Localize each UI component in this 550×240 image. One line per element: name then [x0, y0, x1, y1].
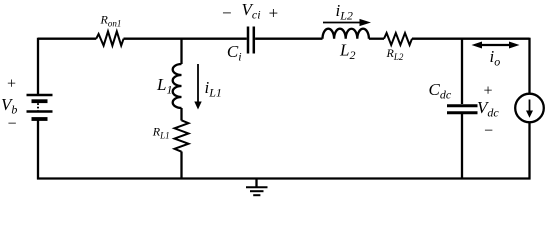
capacitor C_i: [248, 27, 254, 54]
svg-text:Vdc: Vdc: [477, 98, 499, 120]
wire right vertical top: [528, 38, 530, 94]
svg-text:L2: L2: [339, 41, 355, 63]
svg-text:iL1: iL1: [205, 78, 222, 100]
wire C_dc to bottom rail: [461, 114, 463, 180]
svg-text:RL2: RL2: [386, 46, 404, 62]
wire left vertical (battery top): [37, 38, 39, 94]
inductor L_2: [323, 29, 369, 39]
wire L1 to R_L1: [180, 108, 182, 121]
wire left vertical (battery bottom): [37, 119, 39, 180]
resistor R_L1: [175, 120, 189, 151]
wire top rail: R_L2 to right corner: [412, 38, 530, 40]
wire C_dc branch top: [461, 38, 463, 104]
svg-text:RL1: RL1: [152, 125, 170, 141]
svg-text:−: −: [7, 116, 18, 133]
wire right vertical bottom: [528, 122, 530, 180]
wire L1 branch top: [180, 38, 182, 64]
wire top rail left segment: [38, 38, 96, 40]
current source: [515, 94, 544, 123]
resistor R_L2: [384, 33, 412, 45]
svg-text:iL2: iL2: [336, 1, 353, 23]
svg-text:Ron1: Ron1: [100, 13, 122, 29]
svg-text:io: io: [490, 47, 501, 69]
ground: [246, 179, 268, 196]
svg-text:L1: L1: [156, 75, 172, 97]
svg-text:Vci: Vci: [242, 0, 261, 22]
svg-text:Ci: Ci: [227, 42, 242, 64]
svg-text:−: −: [221, 4, 232, 23]
current arrow i_o (double headed): [472, 42, 520, 49]
wire top rail: C_i to L_2: [255, 38, 322, 40]
resistor R_on1: [96, 31, 123, 45]
wire R_L1 to bottom rail: [180, 152, 182, 180]
current arrow i_L2: [323, 19, 371, 26]
wire top rail: R_on1 to C_i: [124, 38, 247, 40]
current arrow i_L1: [194, 64, 201, 110]
wire bottom rail: [37, 177, 531, 179]
wire top rail: L_2 to R_L2: [369, 38, 384, 40]
svg-text:+: +: [268, 4, 279, 23]
svg-text:+: +: [483, 83, 494, 100]
svg-text:Vb: Vb: [1, 95, 17, 117]
svg-text:+: +: [6, 76, 17, 93]
capacitor C_dc: [447, 106, 478, 113]
inductor L_1: [173, 64, 182, 108]
svg-text:−: −: [483, 123, 494, 140]
battery V_b: [27, 95, 53, 119]
svg-text:Cdc: Cdc: [429, 80, 452, 102]
